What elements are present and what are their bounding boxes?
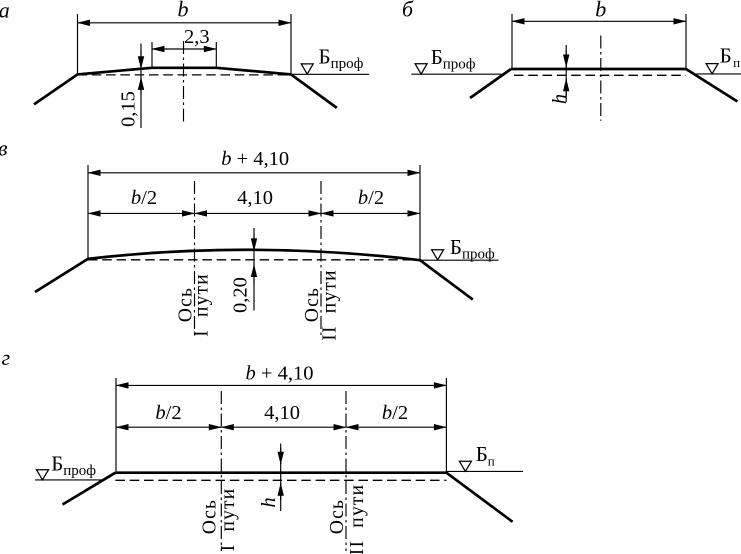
- svg-text:2,3: 2,3: [184, 26, 210, 48]
- svg-text:h: h: [549, 94, 571, 104]
- svg-text:Бпроф: Бпроф: [51, 451, 96, 479]
- svg-text:Бп: Бп: [720, 43, 741, 70]
- svg-text:в: в: [0, 135, 8, 160]
- svg-text:б: б: [402, 0, 414, 22]
- svg-text:г: г: [2, 345, 11, 370]
- svg-text:4,10: 4,10: [237, 187, 273, 209]
- svg-text:b/2: b/2: [155, 402, 181, 424]
- svg-text:b + 4,10: b + 4,10: [246, 363, 314, 385]
- svg-text:Бпроф: Бпроф: [319, 45, 364, 73]
- svg-text:I пути: I пути: [192, 273, 213, 337]
- svg-text:b/2: b/2: [382, 402, 408, 424]
- svg-text:II пути: II пути: [320, 269, 341, 340]
- svg-text:h: h: [258, 497, 280, 507]
- svg-text:b/2: b/2: [131, 187, 157, 209]
- svg-text:Бп: Бп: [476, 442, 495, 469]
- svg-text:II пути: II пути: [347, 484, 368, 554]
- svg-text:b + 4,10: b + 4,10: [221, 148, 289, 170]
- svg-text:b: b: [178, 0, 189, 22]
- svg-text:а: а: [0, 0, 10, 23]
- svg-text:b: b: [595, 0, 606, 22]
- svg-text:Бпроф: Бпроф: [450, 235, 495, 263]
- svg-text:I пути: I пути: [218, 488, 239, 552]
- svg-text:b/2: b/2: [358, 187, 384, 209]
- svg-text:0,20: 0,20: [230, 277, 252, 313]
- svg-text:4,10: 4,10: [264, 402, 300, 424]
- svg-text:Бпроф: Бпроф: [431, 45, 476, 73]
- svg-text:0,15: 0,15: [118, 91, 140, 127]
- svg-text:Ось: Ось: [327, 499, 348, 534]
